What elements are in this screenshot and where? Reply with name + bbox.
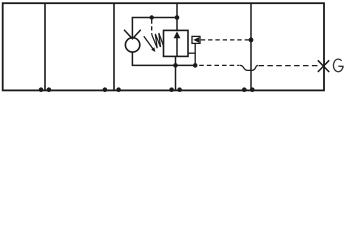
wire: top branch line: [132, 18, 177, 39]
relief valve flow arrow head: [174, 31, 181, 38]
pilot stage box: [192, 36, 200, 43]
gauge line (dashed) to port G: [259, 65, 318, 67]
wire: pilot box drain drop: [194, 43, 196, 65]
port dots pair 2: [103, 87, 108, 92]
wire: valve tab to drain drop: [188, 52, 195, 54]
node: pilot line junction: [249, 38, 254, 43]
node: valve top junction: [175, 15, 180, 20]
node: drain drop junction: [193, 63, 198, 68]
pilot stage triangle: [193, 37, 199, 43]
relief valve flow arrow shaft: [176, 38, 178, 57]
port G plug X mark: [318, 60, 329, 72]
port dots pair 4: [242, 87, 247, 92]
pilot line (dashed) to spring: [151, 20, 153, 35]
check valve V1 ball: [125, 38, 139, 52]
pilot control line (dashed): [201, 39, 250, 41]
relief valve U1 body: [164, 30, 189, 56]
node: pilot tap junction: [150, 15, 154, 19]
adjustment arrow shaft: [144, 36, 154, 50]
label G: [333, 59, 343, 72]
wire: valve bottom port to frame bottom: [175, 56, 177, 90]
spring of relief valve: [152, 33, 164, 48]
wire: check valve to drain line: [131, 52, 133, 65]
divider wire x=114: [113, 3, 115, 90]
wire: riser to frame top: [176, 3, 178, 30]
port dots pair 3: [169, 87, 174, 92]
port dots pair 1: [39, 87, 44, 92]
wire: vent riser from frame top to tank: [250, 3, 252, 90]
divider wire x=45: [44, 3, 46, 90]
drain line (dashed) to tank dip: [199, 64, 239, 66]
check valve V1 seat: [124, 30, 141, 39]
tank dip: [240, 65, 258, 70]
adjustment arrow head: [151, 47, 155, 52]
node: valve bottom port junction: [173, 63, 178, 68]
manifold enclosure frame: [3, 3, 324, 90]
wire: solid drain line: [132, 64, 196, 66]
